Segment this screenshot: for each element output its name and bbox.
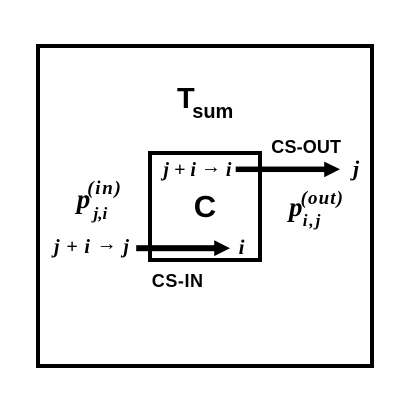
- label CS-OUT: [271, 138, 341, 156]
- label C: [194, 191, 216, 222]
- reaction label j+i->j: [54, 237, 130, 257]
- node j (output): [353, 158, 359, 180]
- wire/arrow CS-IN: [131, 237, 235, 261]
- label p_ij_out: [289, 194, 303, 221]
- label T_sum: [177, 85, 233, 122]
- reaction label j+i->i: [163, 160, 231, 180]
- node i (inside box): [239, 237, 245, 258]
- outer system box T_sum: [36, 44, 374, 368]
- label p_ji_in: [77, 186, 91, 213]
- label CS-IN: [152, 272, 204, 290]
- inner box C: [148, 151, 263, 262]
- wire/arrow CS-OUT: [230, 158, 345, 182]
